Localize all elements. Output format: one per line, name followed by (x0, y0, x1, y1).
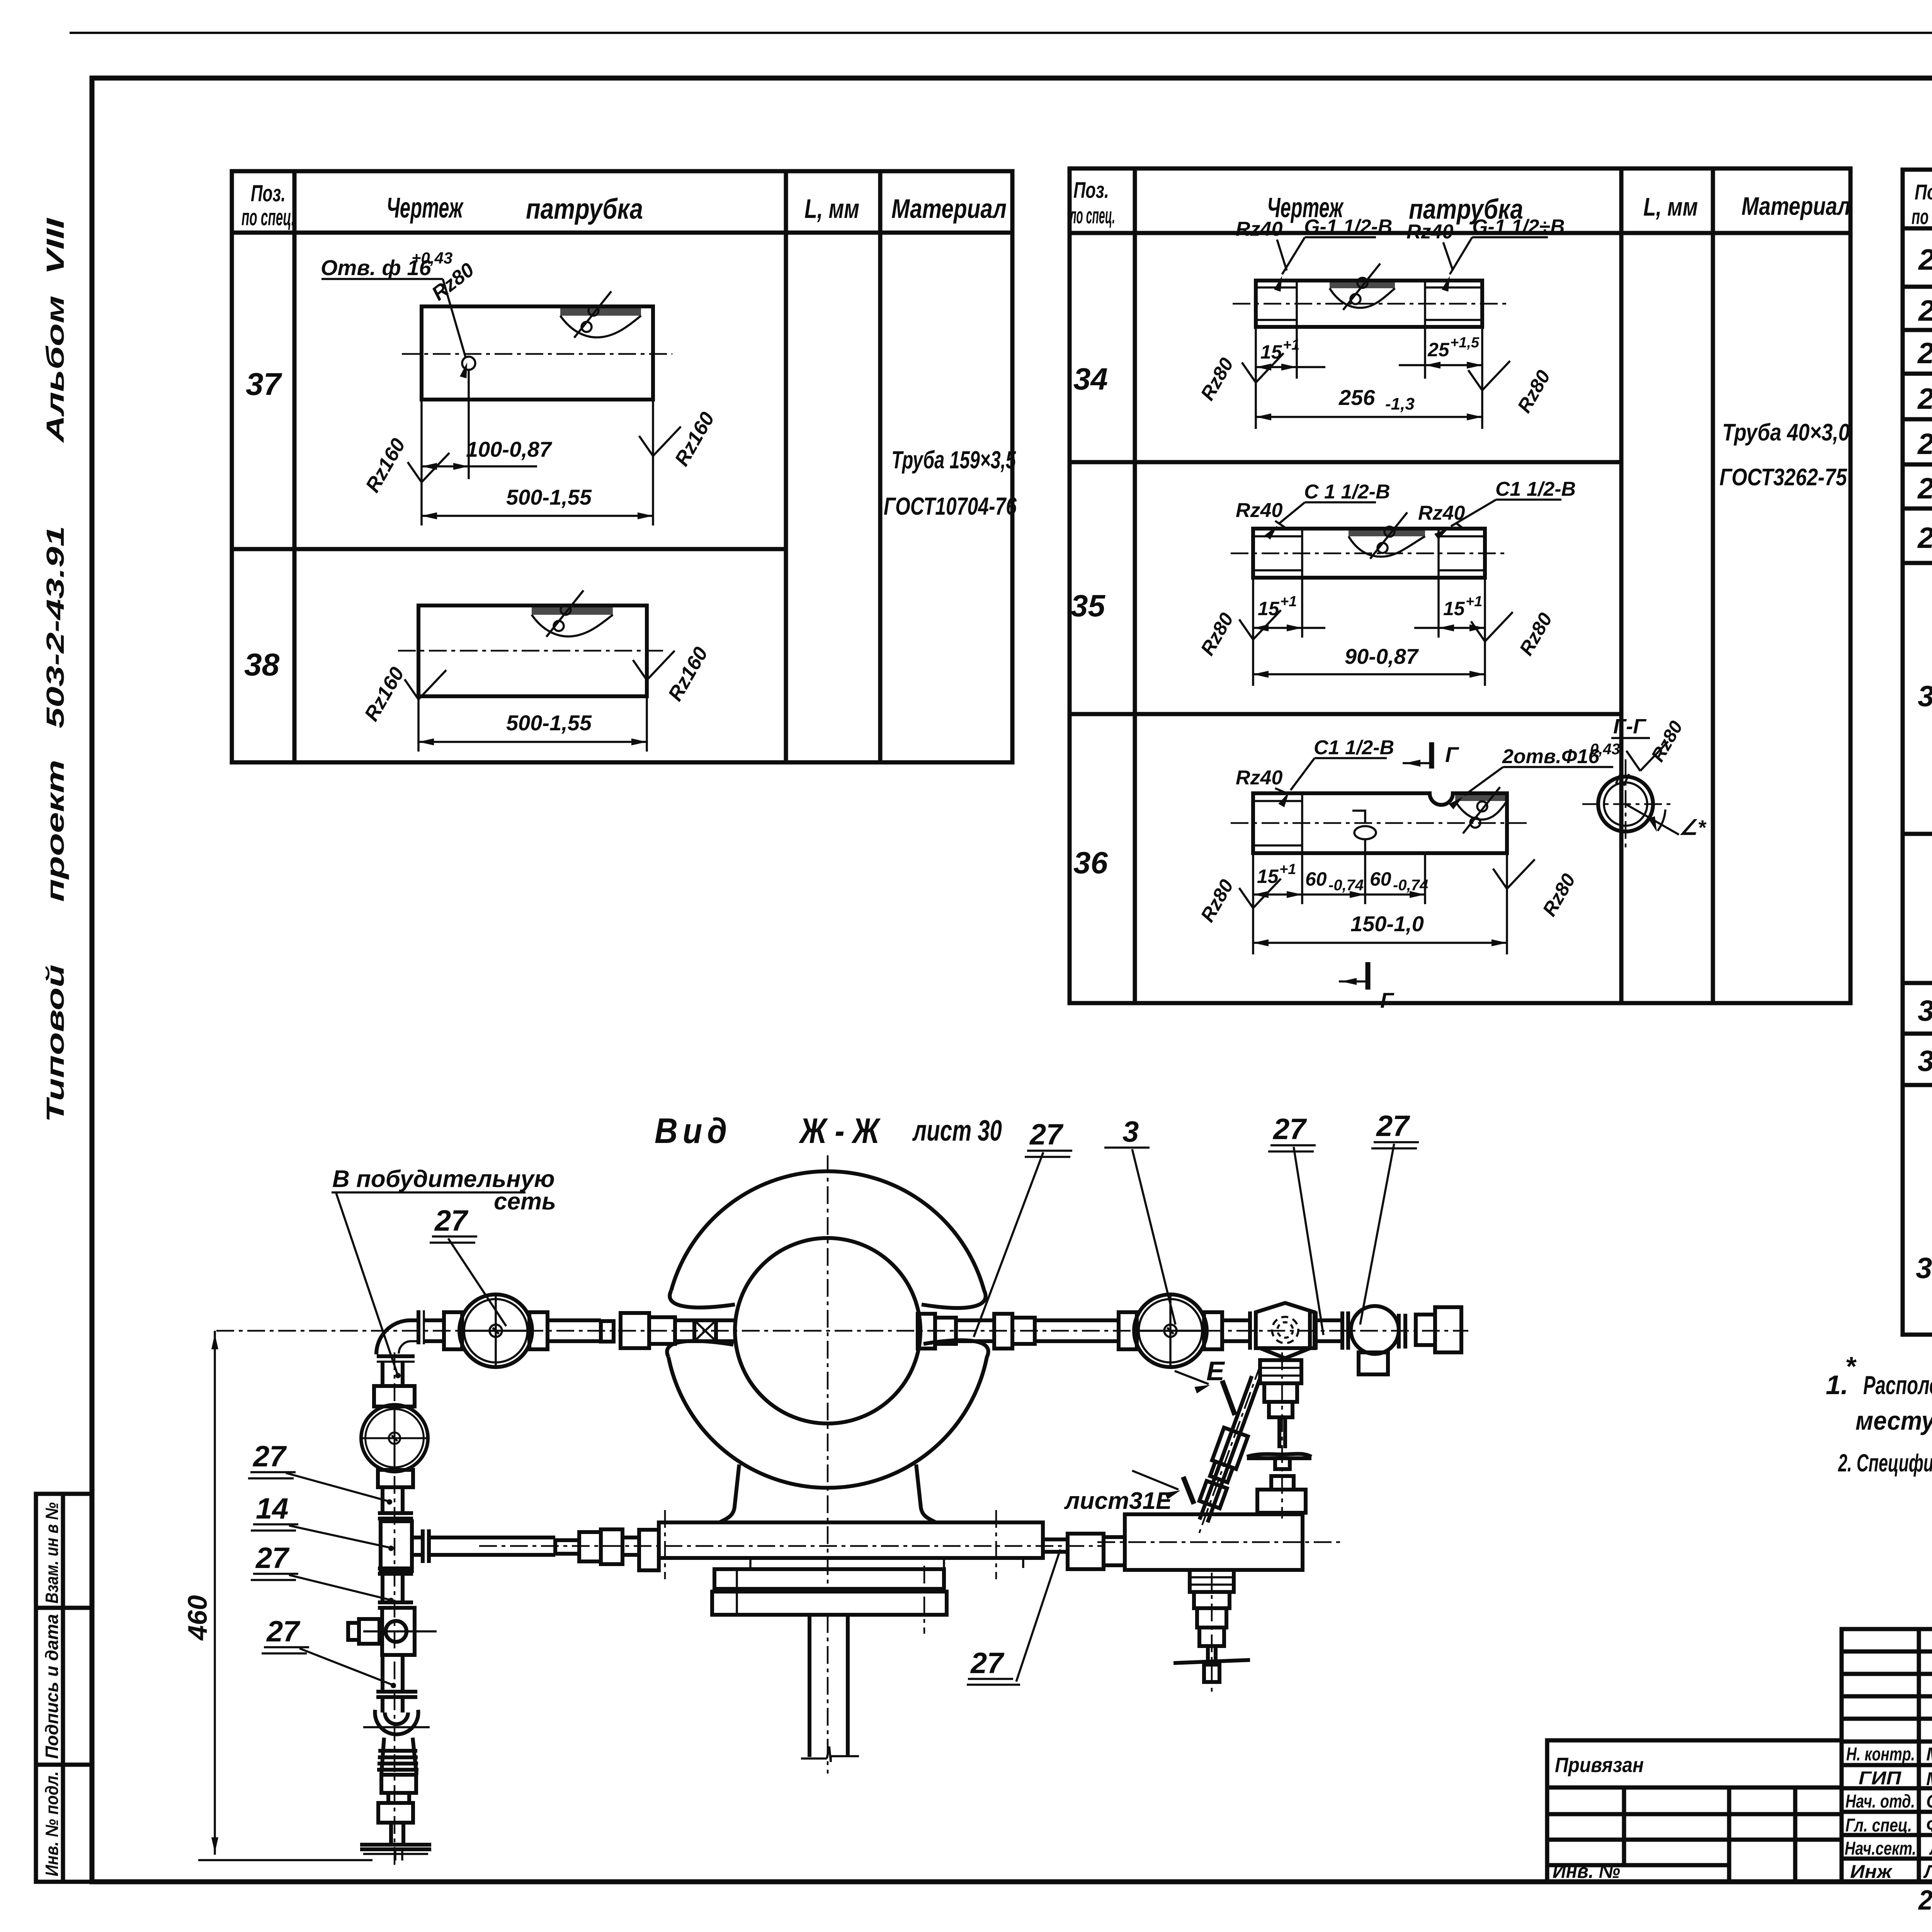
svg-text:Осовский: Осовский (1926, 1791, 1932, 1812)
svg-text:27: 27 (1917, 428, 1932, 461)
svg-text:Ж - Ж: Ж - Ж (799, 1111, 881, 1151)
svg-text:лист 30: лист 30 (912, 1114, 1002, 1147)
svg-text:Подпись и дата: Подпись и дата (42, 1614, 62, 1759)
svg-text:+1: +1 (1283, 337, 1299, 353)
svg-text:∠*: ∠* (1679, 816, 1707, 839)
svg-text:Инж: Инж (1850, 1862, 1893, 1882)
svg-text:90-0,87: 90-0,87 (1345, 644, 1419, 668)
svg-text:+1: +1 (1466, 594, 1482, 610)
svg-text:Лебедева: Лебедева (1923, 1862, 1932, 1882)
svg-text:500-1,55: 500-1,55 (506, 711, 592, 735)
svg-text:Меленчук: Меленчук (1926, 1769, 1932, 1789)
svg-text:Гл. спец.: Гл. спец. (1845, 1815, 1912, 1836)
svg-text:L, мм: L, мм (1643, 192, 1698, 221)
svg-text:+1: +1 (1279, 861, 1296, 878)
svg-text:100-0,87: 100-0,87 (466, 437, 553, 461)
svg-text:Инв. №: Инв. № (1553, 1860, 1620, 1883)
svg-text:Rz40: Rz40 (1418, 502, 1465, 524)
svg-text:Поз.: Поз. (1915, 180, 1932, 204)
svg-text:31: 31 (1918, 995, 1932, 1027)
svg-text:Поз.: Поз. (251, 180, 286, 206)
svg-text:Вид: Вид (655, 1111, 732, 1151)
svg-text:27: 27 (1376, 1110, 1410, 1143)
svg-text:месту при монтаже.: месту при монтаже. (1855, 1406, 1932, 1435)
svg-text:29: 29 (1917, 522, 1932, 554)
svg-text:Взам. ин в №: Взам. ин в № (42, 1502, 62, 1604)
svg-text:ГОСТ3262-75: ГОСТ3262-75 (1719, 464, 1847, 491)
svg-text:C1 1/2-B: C1 1/2-B (1495, 478, 1576, 500)
svg-text:L, мм: L, мм (804, 194, 859, 224)
svg-text:Нач.сект.: Нач.сект. (1845, 1838, 1916, 1859)
svg-text:патрубка: патрубка (526, 193, 643, 225)
svg-text:150-1,0: 150-1,0 (1350, 912, 1424, 936)
svg-text:460: 460 (182, 1595, 213, 1641)
svg-text:G-1 1/2-B: G-1 1/2-B (1304, 216, 1392, 238)
svg-text:Фомина: Фомина (1926, 1815, 1932, 1836)
svg-text:24: 24 (1918, 294, 1932, 327)
svg-text:27: 27 (255, 1542, 290, 1575)
svg-text:Г-Г: Г-Г (1613, 715, 1647, 738)
svg-text:Инв. № подл.: Инв. № подл. (42, 1771, 62, 1876)
svg-text:28: 28 (1917, 472, 1932, 505)
svg-text:Мороз: Мороз (1926, 1744, 1932, 1765)
svg-text:23: 23 (1918, 243, 1932, 276)
svg-text:15: 15 (1443, 598, 1465, 619)
svg-text:14: 14 (256, 1492, 289, 1525)
svg-text:ГОСТ10704-76: ГОСТ10704-76 (884, 492, 1017, 520)
svg-text:60: 60 (1370, 868, 1391, 890)
svg-text:256: 256 (1338, 385, 1375, 410)
svg-text:Труба 40×3,0: Труба 40×3,0 (1722, 419, 1850, 446)
svg-text:C 1 1/2-B: C 1 1/2-B (1304, 481, 1390, 503)
svg-text:Rz40: Rz40 (1406, 221, 1453, 243)
svg-text:*: * (1845, 1351, 1857, 1381)
svg-text:27: 27 (252, 1440, 287, 1473)
svg-text:60: 60 (1305, 868, 1327, 890)
svg-text:G-1 1/2÷B: G-1 1/2÷B (1472, 216, 1565, 238)
svg-text:26: 26 (1917, 383, 1932, 415)
svg-text:38: 38 (244, 647, 280, 682)
svg-text:+1,5: +1,5 (1450, 335, 1480, 351)
svg-text:Г: Г (1445, 742, 1459, 767)
svg-text:по спец.: по спец. (241, 204, 295, 230)
svg-text:Труба 159×3,5: Труба 159×3,5 (891, 446, 1016, 474)
svg-text:25122-08: 25122-08 (1918, 1885, 1932, 1916)
svg-text:-0,74: -0,74 (1328, 877, 1364, 894)
svg-text:ГИП: ГИП (1859, 1768, 1902, 1789)
svg-text:Материал: Материал (1742, 192, 1850, 220)
svg-text:27: 27 (970, 1647, 1005, 1680)
svg-text:36: 36 (1073, 845, 1108, 880)
svg-text:лист31Е: лист31Е (1064, 1488, 1172, 1514)
svg-text:по спец: по спец (1912, 204, 1932, 229)
svg-text:Н. контр.: Н. контр. (1846, 1744, 1915, 1765)
svg-text:Rz40: Rz40 (1236, 767, 1282, 789)
svg-text:-0,74: -0,74 (1393, 877, 1428, 894)
svg-text:Материал: Материал (891, 194, 1007, 224)
svg-text:2отв.Ф16: 2отв.Ф16 (1502, 745, 1600, 768)
svg-text:25: 25 (1917, 337, 1932, 370)
svg-text:15: 15 (1260, 341, 1282, 363)
svg-text:32: 32 (1918, 1045, 1932, 1078)
svg-text:Г: Г (1380, 988, 1395, 1012)
svg-text:30: 30 (1918, 680, 1932, 713)
svg-text:35: 35 (1071, 588, 1105, 623)
svg-text:-1,3: -1,3 (1385, 395, 1415, 413)
svg-text:27: 27 (1029, 1118, 1064, 1151)
svg-text:3: 3 (1122, 1116, 1139, 1148)
svg-text:C1 1/2-B: C1 1/2-B (1314, 736, 1394, 759)
svg-text:27: 27 (266, 1615, 301, 1648)
svg-text:27: 27 (1272, 1113, 1307, 1146)
svg-text:33: 33 (1916, 1252, 1932, 1285)
svg-text:37: 37 (246, 367, 282, 402)
svg-text:34: 34 (1073, 362, 1108, 396)
svg-text:Rz40: Rz40 (1236, 499, 1282, 522)
svg-text:25: 25 (1427, 339, 1450, 361)
svg-text:ло спец.: ло спец. (1069, 203, 1115, 228)
svg-text:Чертеж: Чертеж (386, 192, 464, 224)
svg-text:2. Спецификацию см. лист: 2. Спецификацию см. лист 33 (1838, 1449, 1932, 1477)
svg-text:Расположение отверстия ф16 на: Расположение отверстия ф16 на патрубке п… (1863, 1371, 1932, 1400)
svg-text:Поз.: Поз. (1073, 178, 1109, 203)
svg-text:Привязан: Привязан (1555, 1753, 1644, 1777)
svg-text:Типовой проект 503-2-43: Типовой проект 503-2-43.91 Альбом VIII (41, 218, 69, 1122)
svg-text:0,43: 0,43 (1590, 741, 1620, 758)
svg-text:Rz40: Rz40 (1236, 218, 1282, 240)
svg-text:+0,43: +0,43 (412, 249, 452, 267)
svg-text:Нач. отд.: Нач. отд. (1845, 1791, 1915, 1812)
svg-text:500-1,55: 500-1,55 (506, 485, 592, 509)
svg-text:+1: +1 (1280, 594, 1297, 610)
svg-text:27: 27 (434, 1204, 469, 1237)
